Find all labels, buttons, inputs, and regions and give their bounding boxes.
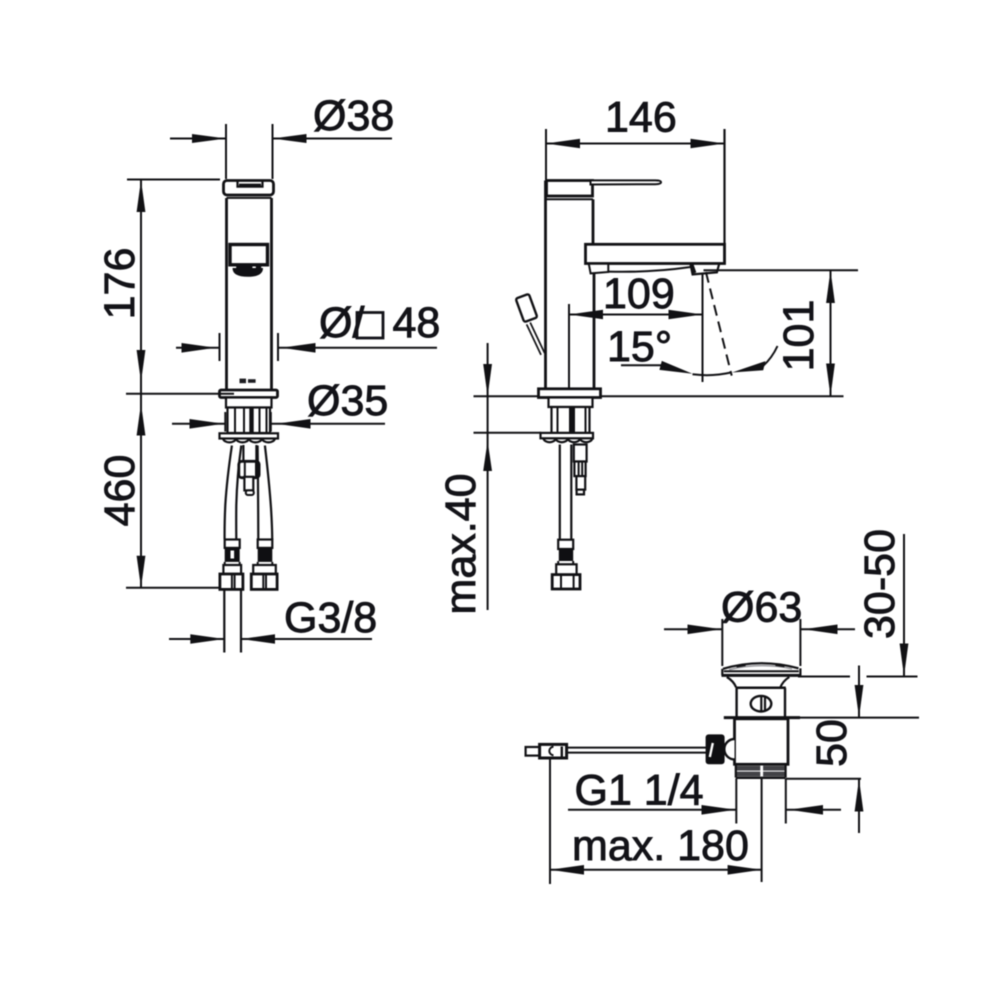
left hose — [225, 446, 232, 540]
vertical reference line at outlet — [702, 273, 704, 383]
15 deg angle arc — [693, 372, 732, 375]
body bottom thick line / 50-top extension — [724, 716, 800, 719]
under-cap band line — [227, 197, 272, 199]
svg-text:Ø63: Ø63 — [721, 584, 802, 632]
column left edge — [544, 181, 547, 390]
body left edge — [225, 198, 228, 391]
spout underside curve — [608, 267, 690, 272]
svg-text:Ø35: Ø35 — [307, 377, 388, 425]
deck bottom line — [474, 432, 542, 434]
svg-text:460: 460 — [96, 455, 144, 527]
plug cap base lines — [724, 670, 799, 672]
dim 101 line + arrows — [830, 270, 832, 396]
base plate (side) — [539, 389, 601, 398]
arrow on dashed line — [732, 361, 765, 372]
washer scallops (side) — [544, 439, 593, 443]
tee body — [735, 719, 789, 765]
dim 30-50 line + arrow — [903, 534, 905, 676]
brand mark — [240, 379, 247, 384]
outlet thread — [737, 766, 785, 771]
dim 176/460 shared extension — [126, 393, 234, 395]
dim max.40 line + arrows — [487, 343, 489, 610]
left hose fitting — [225, 540, 240, 548]
dim Ø38 extension line right — [272, 124, 274, 179]
faucet top cap — [224, 181, 274, 196]
svg-text:50: 50 — [808, 719, 856, 767]
svg-text:101: 101 — [775, 300, 823, 372]
svg-text:48: 48 — [393, 299, 441, 347]
svg-text:G1 1/4: G1 1/4 — [575, 767, 704, 815]
plug cap dome — [723, 663, 799, 669]
50-bottom extension — [786, 778, 861, 780]
dim G1 1/4 line + arrows — [568, 809, 736, 811]
flange box (side) — [549, 398, 593, 408]
funnel neck — [727, 677, 736, 687]
dim Ø38 extension line left — [225, 124, 227, 179]
flange box — [226, 398, 272, 408]
dim 109 extension (column center) — [568, 304, 570, 388]
G3/8 pipe tail — [223, 589, 225, 652]
right hose fitting — [258, 540, 273, 548]
handle block — [547, 181, 593, 197]
washer scalloped nut — [223, 439, 275, 443]
drain rod linkage (side) — [574, 445, 587, 462]
spout outlet — [690, 264, 719, 275]
dim 146 line + arrows — [546, 143, 725, 145]
dim Ø63 extension lines — [721, 619, 723, 666]
dim G3/8 line + arrows — [169, 638, 224, 640]
svg-text:109: 109 — [603, 270, 675, 318]
dim 146 extension right / body rear edge — [723, 129, 725, 264]
body right edge — [270, 198, 273, 391]
dim 109 line + arrows — [569, 314, 703, 316]
svg-text:G3/8: G3/8 — [284, 594, 377, 642]
dim Ø63 line + arrows — [664, 628, 722, 630]
svg-text:176: 176 — [96, 248, 144, 320]
dim Ø35 line + arrows — [172, 423, 225, 425]
supply tube pair — [242, 445, 244, 462]
dim 101 extension top — [704, 269, 859, 271]
horizontal pop-up rod — [567, 747, 707, 749]
svg-text:30-50: 30-50 — [856, 529, 904, 639]
right hose — [265, 446, 272, 540]
threaded shank — [228, 408, 271, 434]
pop-up rod knob — [516, 294, 538, 322]
column right edge upper — [592, 199, 595, 244]
svg-text:Ø38: Ø38 — [313, 92, 394, 140]
pop-up rod — [530, 323, 544, 354]
overflow hole — [751, 696, 772, 712]
spout slab — [586, 244, 725, 263]
drain body — [735, 688, 737, 717]
cap notch — [238, 181, 263, 187]
handle lever blade — [591, 180, 662, 184]
dim 176 extension top — [127, 179, 220, 181]
mounting washer bar (side) — [541, 433, 594, 438]
dim 460 extension bottom — [126, 587, 221, 589]
deck top line — [474, 395, 844, 397]
15 deg dashed axis line — [706, 272, 732, 376]
dim Ø38 line + arrows — [170, 138, 226, 140]
coupling bump — [724, 739, 734, 759]
valve body — [239, 461, 259, 477]
rod coupling nut — [706, 734, 725, 764]
aerator window — [230, 245, 268, 265]
below-thread extension lines — [735, 779, 737, 824]
rod end fitting — [526, 747, 540, 756]
aerator dark insert — [233, 268, 264, 277]
svg-text:15°: 15° — [607, 323, 672, 371]
column right edge lower — [593, 273, 596, 390]
mounting washer bar — [220, 433, 279, 438]
base plate — [220, 390, 278, 398]
dim max.180 extension left — [549, 758, 551, 884]
drain center extension — [761, 779, 763, 883]
dim Ø/□48 extension lines — [219, 333, 221, 361]
svg-text:max. 180: max. 180 — [572, 822, 749, 870]
svg-text:max.40: max.40 — [437, 473, 485, 614]
spout left lip — [589, 264, 609, 274]
15 deg leader + arrow — [621, 364, 661, 366]
hose (side) — [559, 445, 561, 540]
valve stem — [244, 477, 253, 491]
hose fitting (side) — [558, 540, 573, 549]
dim max.180 line + arrows — [550, 869, 762, 871]
dim 146 extension left — [545, 129, 547, 180]
dim 460 line — [140, 394, 142, 588]
dim Ø35 extension lines — [224, 412, 226, 432]
dim 176 line — [140, 180, 142, 394]
dim Ø/□48 line + arrows — [176, 347, 220, 349]
threaded shank (side) — [552, 407, 590, 433]
dim 50 line + arrows — [858, 666, 860, 718]
svg-text:146: 146 — [605, 94, 677, 142]
